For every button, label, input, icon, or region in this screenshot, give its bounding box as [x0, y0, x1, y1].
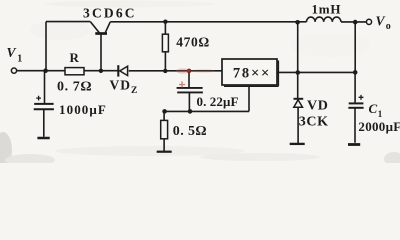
svg-text:0. 22μF: 0. 22μF: [197, 94, 239, 109]
svg-text:V: V: [7, 45, 17, 60]
node: junction dot R1 bottom at main wire: [163, 69, 167, 73]
wire: input terminal to resistor R: [17, 70, 65, 72]
wire: top rail middle segment (Q1 collector to inductor): [110, 21, 306, 23]
resistor R body: [65, 68, 84, 75]
node: junction dot freewheel branch at output wire: [296, 70, 301, 75]
terminal: input terminal circle: [11, 68, 16, 73]
node: junction dot common rail at R2: [162, 109, 167, 114]
resistor R1 470 ohm with leads: [162, 22, 168, 71]
svg-text:2000μF: 2000μF: [358, 119, 400, 134]
svg-text:1mH: 1mH: [312, 1, 342, 16]
ground symbol at VD anode: [290, 143, 305, 145]
capacitor C1 2000uF with leads and polarity mark: [348, 72, 363, 142]
resistor R2 0.5 ohm with leads: [161, 111, 168, 151]
svg-text:3CD6C: 3CD6C: [83, 5, 137, 20]
svg-text:0. 7Ω: 0. 7Ω: [57, 79, 92, 94]
transistor Q1 3CD6C pass transistor: [90, 22, 110, 71]
svg-text:1000μF: 1000μF: [59, 102, 107, 117]
wire: vertical from input node up to top rail: [45, 22, 47, 71]
svg-text:1: 1: [378, 109, 383, 119]
node: junction dot output wire end at C1 branch: [353, 70, 358, 75]
red pen mark: junction dot at C2 top: [176, 68, 215, 73]
wire: VDz to regulator U1 input: [129, 70, 222, 72]
wire: C1 branch from output node on top rail down to output wire: [354, 22, 356, 72]
ground symbol at C3 negative: [37, 137, 49, 140]
svg-text:C: C: [369, 101, 378, 116]
wire: top rail left segment (input node to Q1 emitter): [46, 21, 90, 23]
wire: regulator output to output node: [277, 71, 355, 73]
terminal: output terminal circle: [366, 19, 371, 24]
wire: top rail right segment (inductor to output terminal): [341, 21, 366, 23]
capacitor C2 0.22uF with leads: [177, 71, 203, 112]
wire: regulator common rail (GND pin to R2 and C2 bottom): [165, 110, 250, 112]
diode VD 3CK freewheel: [294, 99, 304, 143]
svg-text:0. 5Ω: 0. 5Ω: [173, 124, 207, 139]
wire: R to zener VDz: [84, 70, 118, 72]
node: junction dot common rail at C2 bottom: [188, 109, 193, 114]
svg-text:R: R: [70, 50, 80, 65]
svg-text:1: 1: [17, 53, 22, 64]
inductor L1 1mH: [307, 17, 341, 22]
svg-text:3CK: 3CK: [299, 115, 329, 130]
svg-text:78××: 78××: [233, 65, 271, 81]
capacitor C3 1000uF input filter with leads and polarity mark: [34, 71, 54, 137]
red pen mark: small cross near C2 top plate: [179, 81, 185, 87]
ground symbol at C1 negative: [348, 143, 360, 146]
node: junction dot input node: [43, 68, 48, 73]
zener diode VDz: [118, 65, 127, 76]
wire: freewheel diode branch from top rail down through output wire: [297, 22, 299, 98]
IC U1 voltage regulator 78xx body: [222, 59, 278, 86]
node: junction dot top rail output node: [353, 20, 358, 25]
svg-text:Z: Z: [131, 86, 137, 96]
node: junction dot Q1 base at main wire: [99, 69, 103, 73]
svg-text:VD: VD: [307, 98, 328, 113]
svg-text:o: o: [386, 21, 391, 32]
pin: U1 ground pin lead: [248, 85, 250, 111]
node: junction dot top of R1 branch: [163, 20, 167, 24]
node: junction dot top rail at freewheel branch: [295, 20, 300, 25]
svg-text:VD: VD: [110, 78, 132, 93]
svg-text:470Ω: 470Ω: [176, 34, 209, 49]
ground symbol at R2: [157, 151, 172, 153]
svg-text:V: V: [376, 14, 386, 29]
